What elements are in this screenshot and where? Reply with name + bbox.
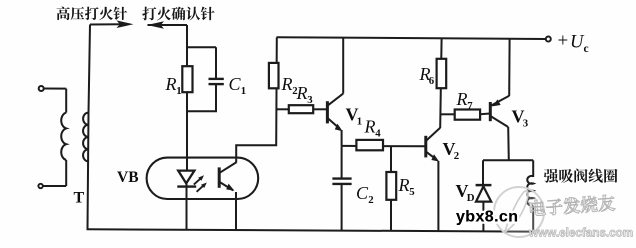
svg-text:R: R <box>165 74 177 94</box>
svg-text:7: 7 <box>467 100 473 112</box>
svg-text:R: R <box>398 175 410 195</box>
svg-text:2: 2 <box>454 150 459 162</box>
svg-text:R: R <box>364 117 376 137</box>
svg-text:R: R <box>281 74 293 94</box>
svg-text:VB: VB <box>117 169 139 186</box>
svg-text:R: R <box>296 83 308 103</box>
svg-text:3: 3 <box>523 118 529 130</box>
svg-text:1: 1 <box>176 85 181 97</box>
svg-text:+: + <box>558 31 569 52</box>
svg-text:4: 4 <box>375 128 381 140</box>
svg-text:3: 3 <box>307 94 313 106</box>
svg-text:1: 1 <box>241 85 246 97</box>
svg-text:www.elecfans.com: www.elecfans.com <box>528 227 633 240</box>
svg-text:5: 5 <box>409 186 414 198</box>
svg-text:T: T <box>74 190 85 207</box>
svg-text:C: C <box>356 183 369 203</box>
svg-text:R: R <box>456 89 468 109</box>
svg-text:1: 1 <box>357 116 362 128</box>
svg-text:6: 6 <box>429 75 435 87</box>
svg-text:2: 2 <box>368 194 373 206</box>
svg-text:ybx8.cn: ybx8.cn <box>456 209 518 226</box>
svg-text:D: D <box>467 192 475 204</box>
svg-text:C: C <box>229 74 242 94</box>
svg-text:c: c <box>584 43 589 55</box>
